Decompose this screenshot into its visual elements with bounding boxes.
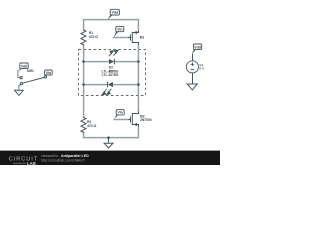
wire right vertical M1 source to M2 drain bbox=[137, 44, 139, 111]
label Vin (M1 gate) bbox=[114, 32, 119, 38]
svg-text:SW1: SW1 bbox=[27, 69, 34, 73]
wire left to R2 bbox=[83, 85, 85, 118]
wire M1 gate bbox=[114, 37, 130, 39]
diode labels bbox=[102, 66, 120, 78]
svg-text:LTL-307EE: LTL-307EE bbox=[102, 73, 120, 77]
label Vin (SW1) bbox=[45, 75, 47, 77]
wire D3 row left bbox=[84, 84, 108, 86]
footer logo CIRCUIT LAB bbox=[9, 157, 39, 166]
D3 emission arrows bbox=[102, 89, 111, 95]
wire top rail bbox=[84, 19, 139, 21]
wire SW1 Vdd lead bbox=[18, 71, 21, 90]
D2 emission arrows bbox=[109, 50, 118, 56]
wire D3 row right bbox=[113, 84, 138, 86]
transistor M1 bbox=[128, 31, 138, 45]
label Vdd (SW1) bbox=[18, 69, 23, 72]
wire SW1 ground lead bbox=[19, 84, 21, 90]
voltage source V1 bbox=[186, 54, 198, 90]
transistor labels bbox=[140, 36, 152, 123]
footer text bbox=[41, 154, 89, 162]
resistor R2 bbox=[81, 117, 86, 132]
svg-text:470 Ω: 470 Ω bbox=[87, 124, 97, 128]
wire M2 source to rail bbox=[137, 126, 139, 137]
wire R1 to D3 row bbox=[83, 45, 85, 85]
wire D2 row left bbox=[84, 61, 109, 63]
resistor labels bbox=[87, 31, 98, 128]
wire M2 gate bbox=[114, 119, 130, 121]
svg-text:Vin: Vin bbox=[46, 71, 51, 75]
net label boxes bbox=[18, 9, 202, 119]
footer bar bbox=[0, 151, 220, 165]
transistor M2 bbox=[128, 112, 138, 127]
svg-text:Vin: Vin bbox=[118, 111, 123, 115]
svg-text:Vin: Vin bbox=[117, 28, 122, 32]
svg-text:http://circuitlab.com/c6kky7/: http://circuitlab.com/c6kky7/ bbox=[41, 158, 85, 162]
svg-text:Vdd: Vdd bbox=[111, 11, 118, 15]
wire M1 drain to rail bbox=[137, 20, 139, 31]
label Vin (M2 gate) bbox=[114, 115, 119, 119]
wire bottom rail bbox=[84, 137, 139, 139]
svg-text:M1: M1 bbox=[140, 36, 145, 40]
ground (V1) bbox=[187, 84, 197, 90]
label V1 value bbox=[199, 63, 205, 71]
junction node dots bbox=[82, 60, 140, 139]
svg-text:470 Ω: 470 Ω bbox=[89, 35, 99, 39]
svg-text:Vdd: Vdd bbox=[194, 45, 201, 49]
ground (SW1) bbox=[15, 90, 24, 95]
label Vdd (V1) bbox=[192, 50, 196, 54]
wire R2 to bottom rail bbox=[83, 132, 85, 137]
switch SW1 bbox=[15, 76, 47, 96]
svg-text:Vdd: Vdd bbox=[21, 64, 28, 68]
LED D2 bbox=[109, 50, 118, 64]
resistor R1 bbox=[81, 30, 86, 45]
label Vdd (top rail) bbox=[107, 15, 113, 20]
ground (bottom rail) bbox=[104, 138, 113, 148]
wire D2 row right bbox=[114, 61, 138, 63]
wire left vertical to R1 bbox=[83, 20, 85, 30]
svg-text:LAB: LAB bbox=[27, 161, 36, 165]
dashed selection box bbox=[79, 50, 146, 96]
LED D3 bbox=[102, 82, 113, 95]
svg-text:2N7000: 2N7000 bbox=[140, 118, 152, 122]
